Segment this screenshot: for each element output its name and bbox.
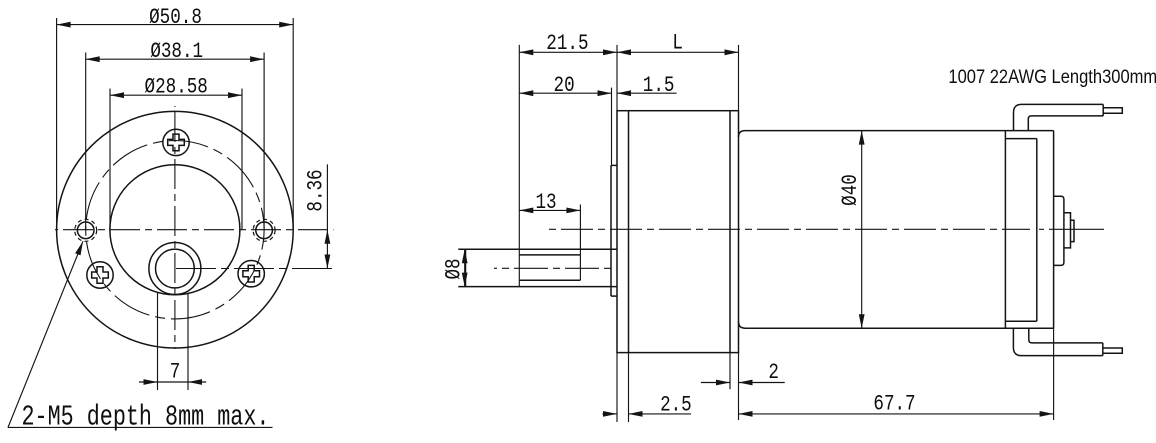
svg-text:21.5: 21.5: [546, 30, 588, 55]
svg-text:8.36: 8.36: [303, 169, 328, 211]
svg-text:7: 7: [170, 359, 181, 384]
svg-text:2: 2: [768, 359, 779, 384]
svg-text:13: 13: [535, 189, 556, 214]
svg-text:1.5: 1.5: [643, 72, 675, 97]
svg-text:Ø28.58: Ø28.58: [145, 74, 208, 99]
svg-text:Ø40: Ø40: [837, 174, 862, 206]
svg-text:L: L: [672, 30, 683, 55]
svg-text:20: 20: [554, 72, 575, 97]
svg-text:67.7: 67.7: [873, 391, 915, 416]
svg-text:1007 22AWG Length300mm: 1007 22AWG Length300mm: [948, 66, 1156, 87]
svg-text:2-M5 depth 8mm max.: 2-M5 depth 8mm max.: [22, 401, 270, 434]
svg-text:Ø50.8: Ø50.8: [149, 4, 202, 29]
svg-text:Ø38.1: Ø38.1: [150, 38, 203, 63]
svg-text:2.5: 2.5: [660, 392, 692, 417]
svg-text:Ø8: Ø8: [441, 258, 466, 279]
